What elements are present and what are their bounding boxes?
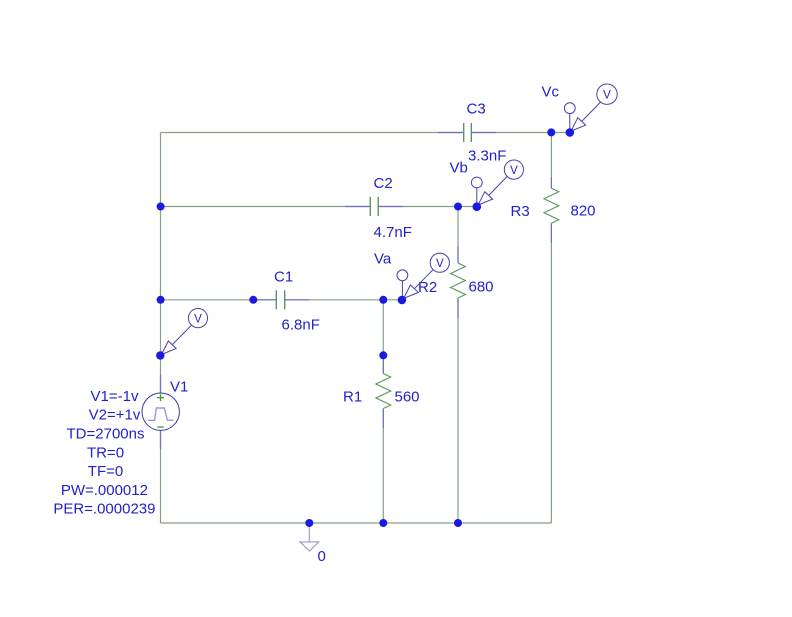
- wire left vertical rail upper: [160, 133, 162, 394]
- capacitor C2: [345, 175, 412, 241]
- wire R2 branch vertical lower: [457, 298, 459, 523]
- Vc probe V circle: [597, 84, 617, 104]
- V1 pin top: [160, 375, 162, 393]
- C2 plate left: [369, 197, 371, 216]
- voltage probe marker Vc: [564, 84, 617, 133]
- svg-text:V1=-1v: V1=-1v: [91, 388, 139, 405]
- probe handle line: [172, 325, 192, 345]
- svg-text:C1: C1: [274, 269, 293, 286]
- svg-text:6.8nF: 6.8nF: [282, 317, 320, 334]
- Va probe arrow triangle: [404, 285, 419, 298]
- wire R1 branch vertical upper: [382, 300, 384, 374]
- svg-text:560: 560: [395, 389, 420, 406]
- resistor R2: [418, 246, 494, 318]
- probe arrow triangle: [162, 341, 177, 355]
- wire right vertical rail below R3: [550, 223, 552, 523]
- R3 pin top: [550, 177, 552, 188]
- C1 pin left: [254, 299, 276, 301]
- C1 pin right: [285, 299, 309, 301]
- junction dot R1 bottom: [379, 519, 387, 527]
- voltage probe marker at V1 output: [162, 309, 208, 355]
- svg-text:C2: C2: [374, 175, 393, 192]
- voltage probe marker Va: [397, 253, 449, 300]
- Vc pin circle: [564, 103, 575, 114]
- svg-text:680: 680: [469, 279, 494, 296]
- Vb probe handle line: [489, 176, 508, 195]
- wire row3 horizontal left of C1: [161, 299, 277, 301]
- svg-text:V1: V1: [170, 379, 188, 396]
- junction dot R2 bottom: [454, 519, 462, 527]
- V1 body circle: [142, 393, 179, 430]
- ground stem: [308, 523, 310, 542]
- Va pin stem: [401, 281, 403, 300]
- C2 plate right: [377, 197, 379, 216]
- junction dot row3 segment join: [249, 296, 257, 304]
- junction dot Vb probe point: [473, 202, 482, 211]
- junction dot node A (R1 top tee): [379, 296, 387, 304]
- C2 pin right: [379, 206, 404, 208]
- svg-text:C3: C3: [467, 101, 486, 118]
- junction dot node row3 left rail: [157, 296, 165, 304]
- wire row2 horizontal left of C2: [161, 206, 371, 208]
- svg-text:V2=+1v: V2=+1v: [89, 407, 141, 424]
- junction dot node C (R3 top tee): [547, 128, 555, 136]
- Vb probe V circle: [504, 160, 523, 179]
- svg-text:PW=.000012: PW=.000012: [61, 482, 148, 499]
- svg-text:TD=2700ns: TD=2700ns: [67, 426, 145, 443]
- junction dot probe point at V1: [156, 351, 164, 359]
- junction dot R1 pin connection: [379, 351, 387, 359]
- svg-text:V: V: [510, 165, 518, 177]
- C3 pin left: [438, 132, 463, 134]
- junction dot node B (R2 top tee): [454, 203, 462, 211]
- junction dot node row2 left rail: [157, 203, 165, 211]
- voltage probe marker Vb: [471, 160, 523, 207]
- R3 zigzag body: [544, 188, 559, 223]
- R2 pin bottom: [457, 298, 459, 318]
- R2 zigzag body: [451, 263, 466, 298]
- Vb pin circle: [471, 177, 482, 188]
- svg-text:820: 820: [571, 203, 596, 220]
- C1 plate right: [284, 290, 286, 309]
- wire top horizontal right of C3: [472, 132, 570, 134]
- C2 pin left: [345, 206, 370, 208]
- svg-text:PER=.0000239: PER=.0000239: [53, 501, 155, 518]
- svg-text:R3: R3: [511, 203, 530, 220]
- R1 pin top: [382, 355, 384, 373]
- wire row2 horizontal right of C2: [378, 206, 476, 208]
- Va probe V circle: [430, 253, 449, 272]
- Va probe handle line: [414, 270, 433, 289]
- Vc pin stem: [569, 114, 571, 133]
- voltage source V1: [53, 375, 188, 518]
- capacitor C3: [438, 101, 506, 165]
- wire top horizontal net: [161, 132, 464, 134]
- svg-text:0: 0: [318, 548, 326, 565]
- svg-text:V: V: [436, 258, 444, 270]
- wire left vertical rail lower: [160, 431, 162, 524]
- svg-text:R1: R1: [343, 389, 362, 406]
- V1 plus sign: [157, 394, 164, 401]
- wire R1 branch vertical lower: [382, 409, 384, 524]
- C3 pin right: [472, 132, 496, 134]
- svg-text:3.3nF: 3.3nF: [468, 148, 506, 165]
- C1 plate left: [275, 290, 277, 309]
- V1 pulse waveform glyph: [148, 408, 174, 420]
- svg-text:Va: Va: [374, 250, 392, 267]
- R1 zigzag body: [376, 374, 391, 409]
- Vb pin stem: [476, 188, 478, 207]
- svg-text:V: V: [194, 313, 202, 325]
- R2 pin top: [457, 246, 459, 263]
- Vc probe arrow triangle: [571, 118, 586, 131]
- R3 pin bottom: [550, 223, 552, 243]
- resistor R1: [343, 355, 420, 428]
- C3 plate right: [470, 123, 472, 142]
- svg-text:TF=0: TF=0: [88, 463, 123, 480]
- V1 pin bottom: [160, 431, 162, 450]
- junction dot Vc probe point: [566, 128, 575, 137]
- probe V circle: [188, 309, 207, 328]
- resistor R3: [511, 177, 596, 243]
- svg-text:4.7nF: 4.7nF: [374, 224, 412, 241]
- wire row3 horizontal right of C1: [285, 299, 402, 301]
- R1 pin bottom: [382, 409, 384, 429]
- wire right vertical rail x=551: [550, 133, 552, 189]
- C3 plate left: [463, 123, 465, 142]
- ground symbol 0: [300, 523, 326, 565]
- svg-text:TR=0: TR=0: [87, 444, 124, 461]
- wire bottom ground rail: [161, 522, 552, 524]
- Vb probe arrow triangle: [478, 192, 493, 205]
- junction dot Va probe point: [398, 296, 407, 305]
- svg-text:Vc: Vc: [542, 84, 560, 101]
- capacitor C1: [254, 269, 320, 334]
- svg-text:Vb: Vb: [450, 160, 468, 177]
- wire R2 branch vertical upper: [457, 207, 459, 264]
- svg-text:V: V: [603, 90, 611, 102]
- Va pin circle: [397, 270, 408, 281]
- junction dot ground tee: [305, 519, 313, 527]
- Vc probe handle line: [582, 102, 601, 121]
- ground triangle: [300, 542, 319, 551]
- V1 minus sign: [157, 426, 163, 428]
